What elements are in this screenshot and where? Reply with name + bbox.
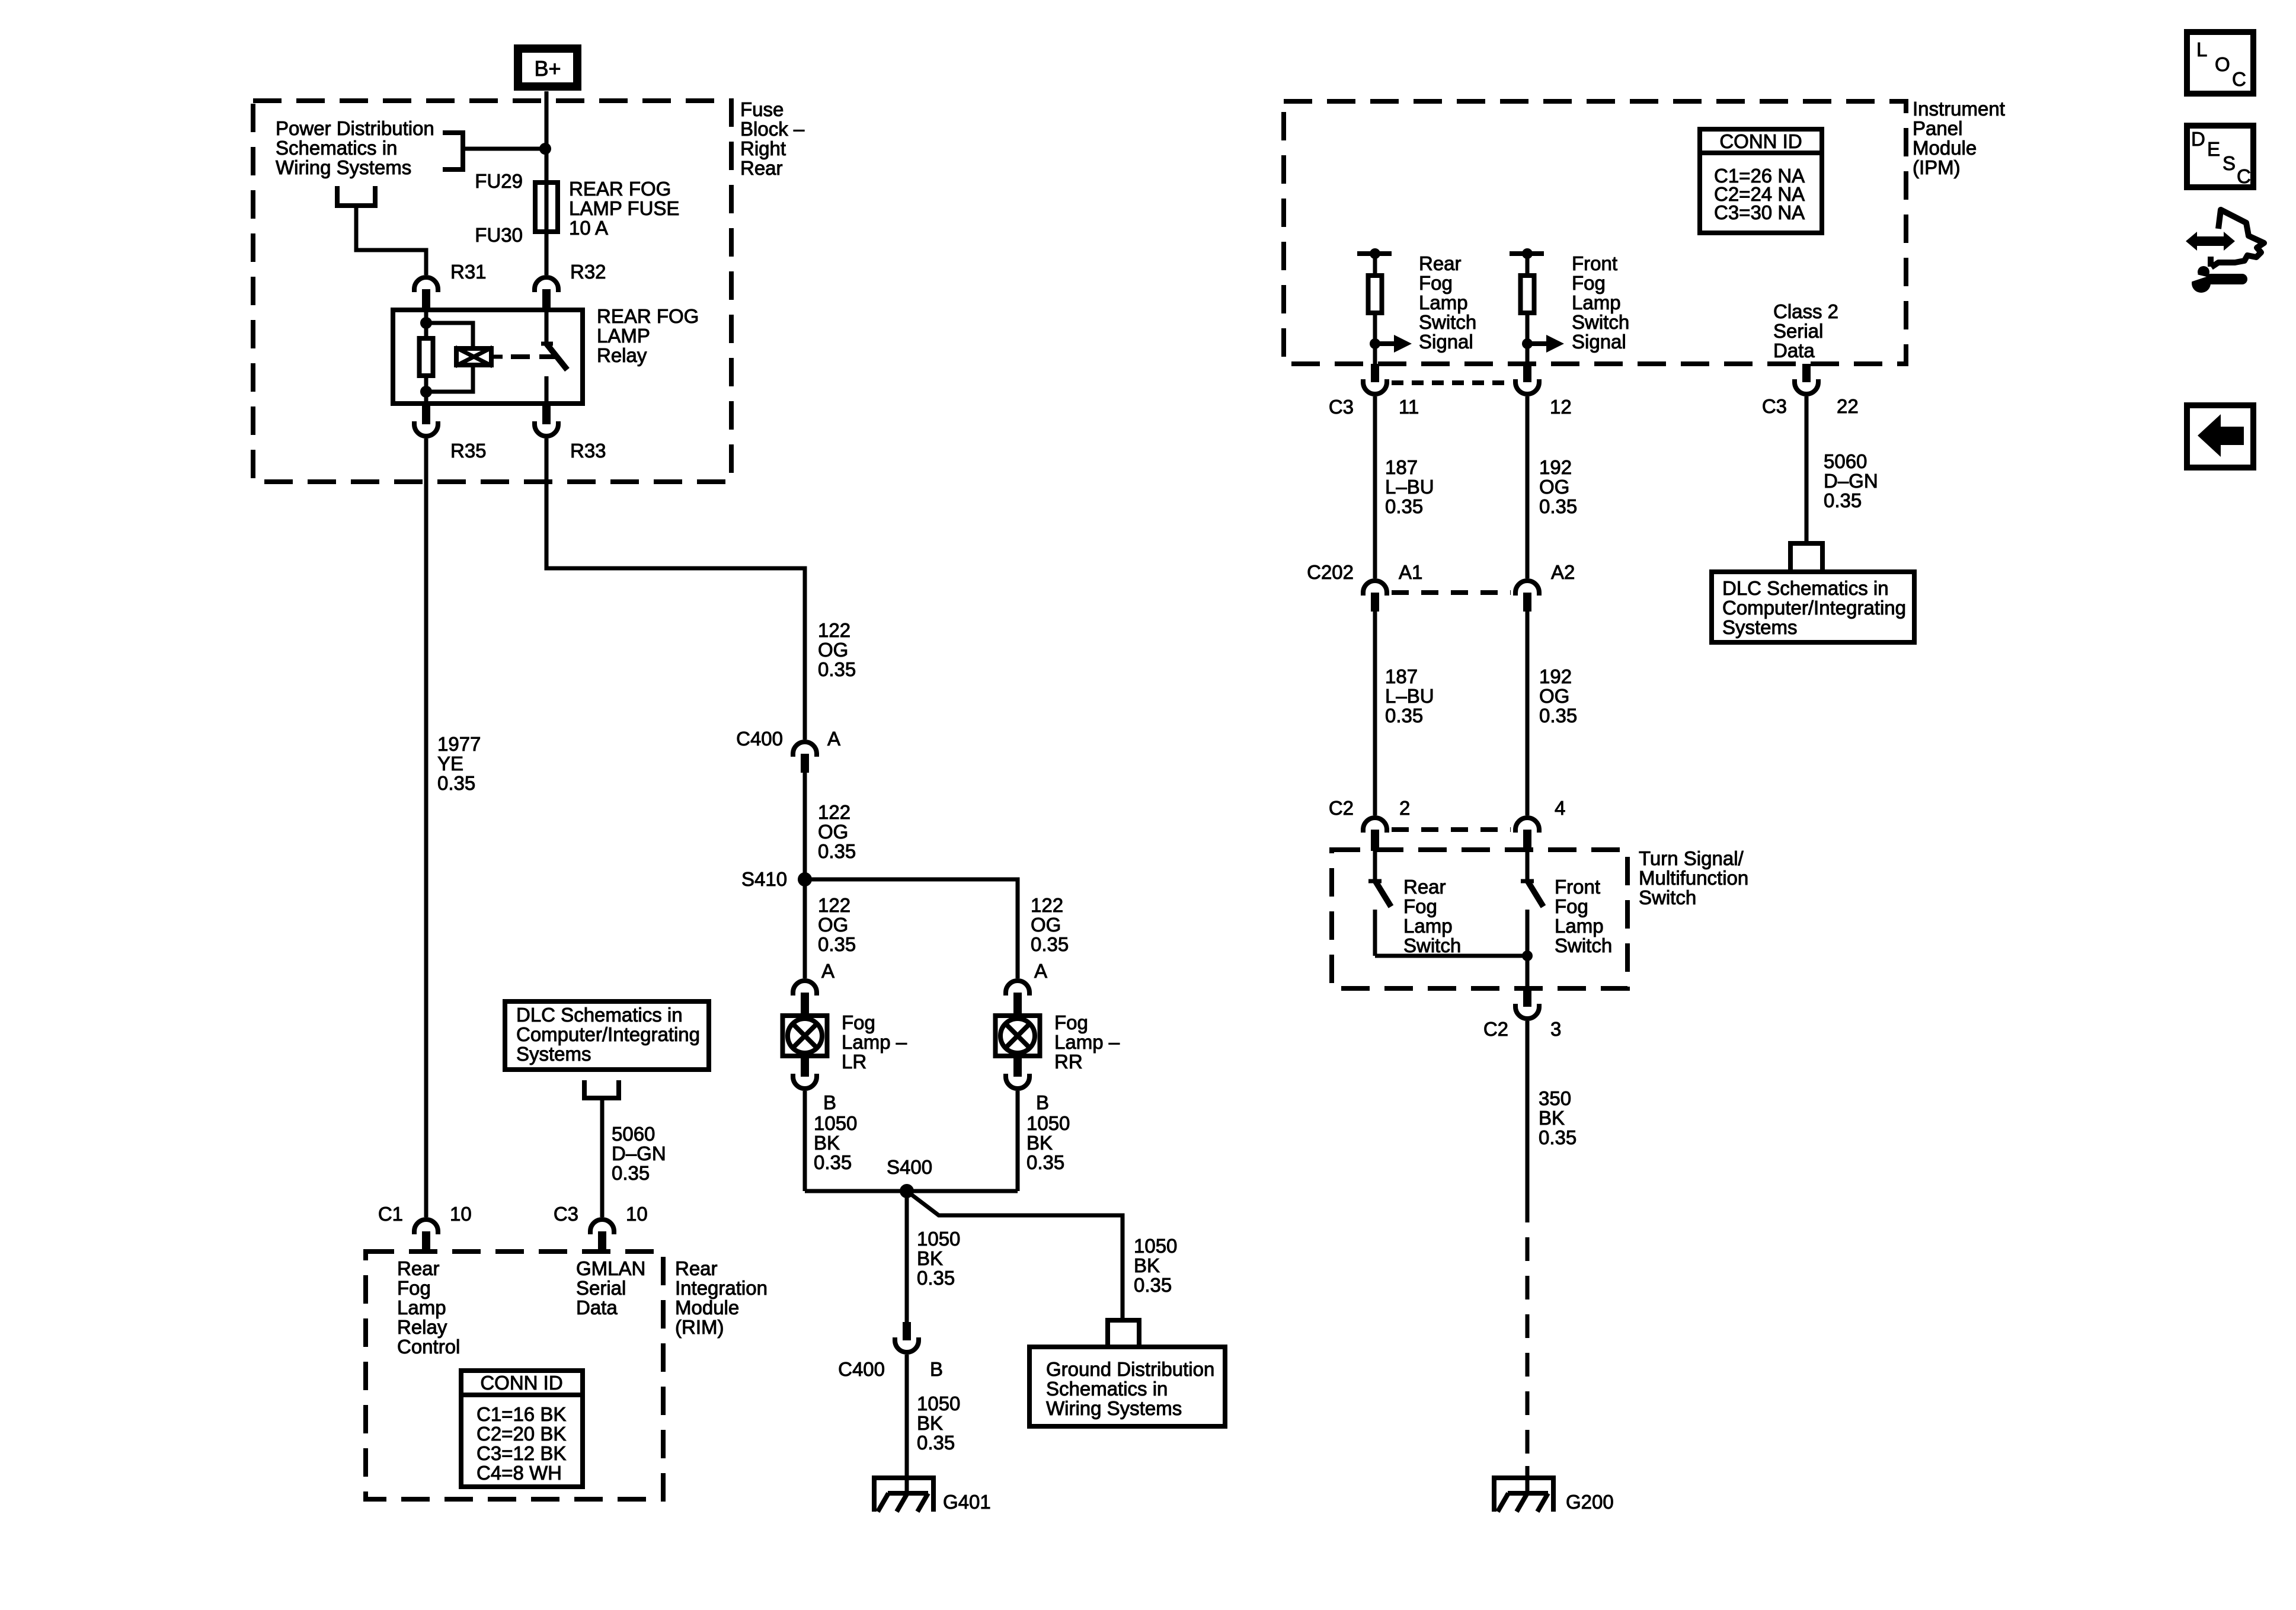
svg-text:Lamp –: Lamp – bbox=[1054, 1031, 1120, 1053]
svg-text:CONN ID: CONN ID bbox=[480, 1372, 562, 1394]
svg-text:0.35: 0.35 bbox=[1824, 489, 1862, 511]
svg-text:C400: C400 bbox=[736, 728, 783, 750]
svg-text:192: 192 bbox=[1539, 665, 1572, 687]
svg-text:(RIM): (RIM) bbox=[675, 1316, 724, 1338]
svg-text:C202: C202 bbox=[1307, 561, 1354, 583]
svg-text:122: 122 bbox=[818, 801, 850, 823]
svg-text:OG: OG bbox=[1539, 476, 1569, 498]
svg-text:B+: B+ bbox=[534, 56, 561, 81]
svg-text:Fog: Fog bbox=[397, 1277, 431, 1299]
svg-text:A1: A1 bbox=[1399, 561, 1422, 583]
svg-text:LAMP: LAMP bbox=[597, 325, 650, 347]
svg-text:Class 2: Class 2 bbox=[1773, 300, 1838, 322]
svg-text:YE: YE bbox=[437, 753, 463, 774]
svg-text:10 A: 10 A bbox=[569, 217, 608, 239]
svg-text:DLC Schematics in: DLC Schematics in bbox=[1722, 577, 1889, 599]
svg-text:Data: Data bbox=[576, 1297, 618, 1318]
svg-text:FU30: FU30 bbox=[475, 224, 523, 246]
svg-text:Fog: Fog bbox=[1419, 272, 1453, 294]
svg-text:CONN ID: CONN ID bbox=[1719, 130, 1802, 152]
svg-text:Systems: Systems bbox=[1722, 616, 1798, 638]
svg-text:Fog: Fog bbox=[1572, 272, 1606, 294]
svg-text:2: 2 bbox=[1399, 797, 1410, 819]
svg-text:0.35: 0.35 bbox=[917, 1432, 955, 1454]
svg-text:Computer/Integrating: Computer/Integrating bbox=[516, 1023, 700, 1045]
svg-text:Schematics in: Schematics in bbox=[276, 137, 397, 159]
svg-text:Power Distribution: Power Distribution bbox=[276, 117, 434, 139]
svg-text:0.35: 0.35 bbox=[818, 658, 856, 680]
svg-text:1050: 1050 bbox=[1134, 1235, 1177, 1257]
svg-text:Computer/Integrating: Computer/Integrating bbox=[1722, 597, 1906, 619]
svg-text:Instrument: Instrument bbox=[1913, 98, 2005, 120]
svg-text:LR: LR bbox=[842, 1051, 866, 1073]
svg-text:3: 3 bbox=[1550, 1018, 1561, 1040]
svg-text:A2: A2 bbox=[1551, 561, 1575, 583]
svg-text:OG: OG bbox=[818, 914, 848, 936]
svg-text:(IPM): (IPM) bbox=[1913, 156, 1961, 178]
svg-text:122: 122 bbox=[1031, 894, 1063, 916]
svg-text:Switch: Switch bbox=[1639, 886, 1696, 908]
svg-text:Fog: Fog bbox=[1555, 895, 1588, 917]
svg-text:C4=8 WH: C4=8 WH bbox=[477, 1462, 562, 1484]
svg-text:Lamp: Lamp bbox=[1419, 292, 1468, 313]
svg-text:0.35: 0.35 bbox=[917, 1267, 955, 1289]
svg-text:1050: 1050 bbox=[917, 1228, 960, 1250]
svg-text:L–BU: L–BU bbox=[1385, 476, 1434, 498]
svg-text:Wiring Systems: Wiring Systems bbox=[276, 156, 411, 178]
svg-text:Module: Module bbox=[1913, 137, 1977, 159]
svg-text:22: 22 bbox=[1837, 395, 1859, 417]
svg-text:10: 10 bbox=[450, 1203, 472, 1225]
svg-text:S410: S410 bbox=[741, 868, 787, 890]
svg-text:G401: G401 bbox=[943, 1491, 991, 1513]
svg-text:REAR FOG: REAR FOG bbox=[569, 178, 671, 200]
svg-text:LAMP FUSE: LAMP FUSE bbox=[569, 197, 679, 219]
svg-text:12: 12 bbox=[1550, 396, 1572, 418]
svg-text:C2: C2 bbox=[1483, 1018, 1508, 1040]
svg-text:OG: OG bbox=[818, 639, 848, 661]
svg-text:G200: G200 bbox=[1566, 1491, 1614, 1513]
svg-text:Multifunction: Multifunction bbox=[1639, 867, 1748, 889]
svg-text:B: B bbox=[1036, 1092, 1049, 1113]
svg-text:C3: C3 bbox=[554, 1203, 578, 1225]
svg-text:Switch: Switch bbox=[1403, 934, 1461, 956]
svg-text:BK: BK bbox=[1134, 1254, 1160, 1276]
svg-text:A: A bbox=[821, 960, 834, 982]
svg-text:Rear: Rear bbox=[1419, 252, 1462, 274]
svg-text:GMLAN: GMLAN bbox=[576, 1257, 645, 1279]
svg-text:1050: 1050 bbox=[1027, 1112, 1070, 1134]
svg-text:187: 187 bbox=[1385, 665, 1418, 687]
svg-text:Panel: Panel bbox=[1913, 117, 1962, 139]
svg-text:Switch: Switch bbox=[1572, 311, 1629, 333]
svg-text:Signal: Signal bbox=[1572, 331, 1626, 353]
svg-text:Fuse: Fuse bbox=[740, 98, 784, 120]
svg-text:D–GN: D–GN bbox=[612, 1142, 666, 1164]
svg-text:122: 122 bbox=[818, 894, 850, 916]
svg-text:L–BU: L–BU bbox=[1385, 685, 1434, 707]
svg-text:Data: Data bbox=[1773, 340, 1815, 361]
svg-text:Relay: Relay bbox=[397, 1316, 447, 1338]
svg-text:Ground Distribution: Ground Distribution bbox=[1046, 1358, 1214, 1380]
svg-text:Systems: Systems bbox=[516, 1043, 591, 1065]
svg-text:C400: C400 bbox=[838, 1358, 885, 1380]
svg-text:Fog: Fog bbox=[1403, 895, 1437, 917]
svg-text:1977: 1977 bbox=[437, 733, 481, 755]
svg-text:Rear: Rear bbox=[740, 157, 783, 179]
svg-text:Lamp: Lamp bbox=[1555, 915, 1604, 937]
svg-text:Front: Front bbox=[1572, 252, 1617, 274]
svg-text:0.35: 0.35 bbox=[818, 840, 856, 862]
svg-text:S: S bbox=[2223, 152, 2236, 174]
svg-text:0.35: 0.35 bbox=[1385, 705, 1423, 726]
svg-text:B: B bbox=[930, 1358, 943, 1380]
svg-text:0.35: 0.35 bbox=[1539, 1126, 1576, 1148]
svg-text:DLC Schematics in: DLC Schematics in bbox=[516, 1004, 683, 1026]
svg-text:BK: BK bbox=[814, 1132, 840, 1154]
svg-text:0.35: 0.35 bbox=[1027, 1151, 1064, 1173]
svg-text:C2=20 BK: C2=20 BK bbox=[477, 1423, 566, 1445]
svg-text:R31: R31 bbox=[450, 261, 487, 283]
svg-text:C3: C3 bbox=[1329, 396, 1354, 418]
svg-text:187: 187 bbox=[1385, 456, 1418, 478]
svg-text:0.35: 0.35 bbox=[1539, 705, 1577, 726]
svg-text:Lamp: Lamp bbox=[1572, 292, 1621, 313]
svg-text:Module: Module bbox=[675, 1297, 739, 1318]
svg-text:C: C bbox=[2237, 165, 2251, 187]
svg-text:R32: R32 bbox=[570, 261, 606, 283]
svg-text:122: 122 bbox=[818, 619, 850, 641]
svg-text:A: A bbox=[827, 728, 840, 750]
svg-text:Switch: Switch bbox=[1555, 934, 1612, 956]
svg-text:OG: OG bbox=[1539, 685, 1569, 707]
svg-text:FU29: FU29 bbox=[475, 170, 523, 192]
svg-text:Right: Right bbox=[740, 137, 786, 159]
svg-text:C3: C3 bbox=[1762, 395, 1787, 417]
svg-text:Front: Front bbox=[1555, 876, 1600, 898]
svg-text:OG: OG bbox=[818, 821, 848, 843]
svg-text:4: 4 bbox=[1555, 797, 1565, 819]
svg-text:D: D bbox=[2191, 128, 2205, 150]
svg-text:0.35: 0.35 bbox=[814, 1151, 852, 1173]
svg-text:RR: RR bbox=[1054, 1051, 1083, 1073]
svg-text:C3=12 BK: C3=12 BK bbox=[477, 1442, 566, 1464]
svg-text:Signal: Signal bbox=[1419, 331, 1473, 353]
svg-text:0.35: 0.35 bbox=[1031, 933, 1069, 955]
svg-text:BK: BK bbox=[917, 1412, 943, 1434]
svg-text:L: L bbox=[2196, 39, 2207, 60]
svg-text:S400: S400 bbox=[887, 1156, 932, 1178]
svg-text:A: A bbox=[1034, 960, 1047, 982]
svg-text:350: 350 bbox=[1539, 1087, 1571, 1109]
svg-text:0.35: 0.35 bbox=[1539, 495, 1577, 517]
svg-text:0.35: 0.35 bbox=[1385, 495, 1423, 517]
svg-text:0.35: 0.35 bbox=[818, 933, 856, 955]
svg-text:5060: 5060 bbox=[1824, 450, 1867, 472]
svg-text:D–GN: D–GN bbox=[1824, 470, 1878, 492]
svg-text:Wiring Systems: Wiring Systems bbox=[1046, 1397, 1182, 1419]
svg-text:0.35: 0.35 bbox=[612, 1162, 650, 1184]
svg-text:Control: Control bbox=[397, 1336, 460, 1358]
svg-text:E: E bbox=[2207, 138, 2220, 160]
svg-text:5060: 5060 bbox=[612, 1123, 655, 1145]
svg-text:0.35: 0.35 bbox=[437, 772, 475, 794]
svg-text:C3=30 NA: C3=30 NA bbox=[1714, 201, 1805, 223]
svg-text:REAR FOG: REAR FOG bbox=[597, 305, 699, 327]
svg-text:0.35: 0.35 bbox=[1134, 1274, 1172, 1296]
svg-text:Schematics in: Schematics in bbox=[1046, 1378, 1168, 1400]
svg-text:Lamp: Lamp bbox=[1403, 915, 1453, 937]
svg-text:Relay: Relay bbox=[597, 344, 647, 366]
svg-text:Block –: Block – bbox=[740, 118, 805, 140]
svg-text:Lamp –: Lamp – bbox=[842, 1031, 907, 1053]
svg-text:Switch: Switch bbox=[1419, 311, 1476, 333]
svg-text:BK: BK bbox=[1027, 1132, 1053, 1154]
svg-text:Serial: Serial bbox=[1773, 320, 1823, 342]
svg-text:C1=16 BK: C1=16 BK bbox=[477, 1403, 566, 1425]
svg-text:11: 11 bbox=[1399, 396, 1419, 418]
svg-text:Lamp: Lamp bbox=[397, 1297, 446, 1318]
svg-text:1050: 1050 bbox=[917, 1393, 960, 1414]
svg-text:Turn Signal/: Turn Signal/ bbox=[1639, 847, 1744, 869]
svg-text:C: C bbox=[2232, 68, 2246, 90]
svg-text:C1: C1 bbox=[378, 1203, 403, 1225]
svg-text:1050: 1050 bbox=[814, 1112, 857, 1134]
svg-text:Integration: Integration bbox=[675, 1277, 768, 1299]
svg-text:Fog: Fog bbox=[842, 1012, 875, 1033]
svg-text:Fog: Fog bbox=[1054, 1012, 1088, 1033]
svg-text:Rear: Rear bbox=[675, 1257, 718, 1279]
svg-text:B: B bbox=[823, 1092, 836, 1113]
svg-text:BK: BK bbox=[1539, 1107, 1565, 1129]
svg-text:Serial: Serial bbox=[576, 1277, 626, 1299]
svg-text:BK: BK bbox=[917, 1247, 943, 1269]
svg-text:10: 10 bbox=[626, 1203, 648, 1225]
svg-text:Rear: Rear bbox=[397, 1257, 440, 1279]
svg-text:192: 192 bbox=[1539, 456, 1572, 478]
svg-text:R33: R33 bbox=[570, 440, 606, 462]
svg-text:C2: C2 bbox=[1329, 797, 1354, 819]
svg-text:R35: R35 bbox=[450, 440, 487, 462]
svg-text:Rear: Rear bbox=[1403, 876, 1446, 898]
svg-text:O: O bbox=[2215, 53, 2230, 75]
svg-text:OG: OG bbox=[1031, 914, 1061, 936]
